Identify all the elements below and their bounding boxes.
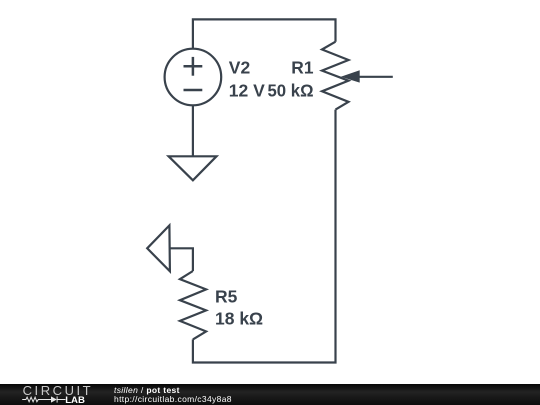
resistor R5	[180, 271, 206, 339]
svg-text:R1: R1	[291, 58, 313, 78]
CircuitLab logo resistor-diode line	[20, 395, 66, 404]
wire top: V2 top terminal to R1 top terminal	[193, 19, 336, 49]
CircuitLab logo LAB text	[65, 396, 85, 405]
CircuitLab logo CIRCUIT text	[23, 384, 94, 397]
ground	[169, 156, 217, 180]
wire: R1 bottom, down and across bottom to R5 bottom	[193, 110, 336, 363]
arrow terminal of R5	[147, 225, 170, 271]
resistor R1 (potentiometer body)	[322, 42, 349, 110]
footer url	[114, 395, 232, 404]
svg-text:50 kΩ: 50 kΩ	[268, 80, 314, 100]
svg-text:R5: R5	[215, 287, 238, 307]
wire: V2 bottom terminal to ground	[192, 105, 194, 156]
footer bar	[0, 384, 540, 405]
footer title: tsillen / pot test	[114, 386, 180, 395]
wire: arrow to R5 top terminal	[170, 248, 193, 271]
svg-text:18 kΩ: 18 kΩ	[215, 308, 263, 328]
wiper arrow of R1	[341, 70, 393, 82]
svg-text:V2: V2	[229, 58, 251, 78]
voltage source V2	[165, 49, 222, 106]
svg-text:12 V: 12 V	[229, 80, 265, 100]
